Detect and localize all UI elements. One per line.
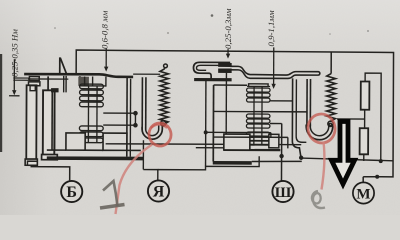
relay 2 lower contact bracket	[194, 78, 232, 81]
relay 2 frame	[214, 84, 247, 86]
relay 1 yoke left bar	[43, 90, 55, 155]
relay 1 contact support triangle	[59, 57, 61, 73]
relay 1 coil winding	[79, 84, 106, 143]
long wire through relay 2	[213, 110, 307, 112]
relay 1 foot blocks	[66, 133, 85, 150]
relay 1 armature bar	[24, 74, 133, 77]
case outline	[76, 50, 394, 177]
resistor R2	[360, 128, 369, 154]
relay 1 flexible U link	[142, 125, 162, 139]
relay 1 core pole	[78, 77, 89, 86]
svg-text:0,9-1,1мм: 0,9-1,1мм	[266, 10, 276, 47]
relay 2 foot line	[224, 149, 281, 151]
wiring weave	[206, 131, 271, 133]
dimension leader 0,25-0,35 Nm	[9, 59, 20, 96]
relay 2 coil taps	[270, 100, 292, 102]
relay 2 contact stack	[218, 63, 232, 67]
dimension leader 0,9-1,1 mm	[271, 47, 276, 89]
relay 2 spring top post	[330, 52, 332, 73]
red pencil line to mark 1	[116, 145, 153, 215]
terminal B	[61, 181, 82, 202]
relay 2 coil winding	[246, 86, 270, 145]
svg-text:0,25-0,35 Нм: 0,25-0,35 Нм	[10, 29, 20, 77]
relay 1 contact post cartridge	[26, 85, 36, 159]
relay 1 tension spring	[160, 68, 169, 125]
stationary plate under armature	[28, 78, 68, 80]
relay 1 coil taps	[103, 112, 135, 114]
wires from cartridge to terminal B	[31, 165, 70, 180]
dust speck	[211, 14, 214, 17]
red pencil line to mark 2	[322, 142, 325, 190]
wire from bracket down to node	[205, 80, 207, 166]
svg-text:М: М	[356, 186, 370, 202]
dimension leader 0,6-0,8 mm	[104, 49, 109, 72]
annotation arrow (thick outline)	[332, 122, 355, 185]
scan edge artifact left	[0, 54, 2, 152]
bottom bus right	[252, 160, 302, 163]
relay 2 coil top flange	[249, 84, 269, 87]
terminal Sh	[272, 181, 293, 202]
junction dot on frame bottom	[279, 154, 283, 158]
terminal Ya	[148, 180, 169, 201]
svg-text:0,25-0,3мм: 0,25-0,3мм	[223, 8, 233, 49]
svg-text:Ш: Ш	[275, 185, 292, 201]
relay 1 contact pair	[29, 77, 39, 81]
terminal riser M	[362, 177, 364, 183]
relay 2 armature strip	[230, 66, 320, 78]
relay 2 armature post	[306, 79, 308, 126]
terminal M	[353, 182, 374, 203]
svg-text:Я: Я	[153, 184, 165, 201]
middle bus wire	[106, 143, 302, 146]
relay 1 spring hanger link	[133, 73, 160, 75]
relay 2 frame bottom thick bar	[213, 161, 252, 165]
red pencil circle on relay 1 spring	[146, 121, 173, 149]
hanger post of yoke bar	[47, 76, 49, 91]
wire spring anchor to resistors	[337, 118, 365, 120]
wire from contact stack down	[225, 72, 227, 150]
relay 1 armature post	[141, 77, 143, 130]
wire pair to contact stack	[13, 77, 29, 79]
resistor chain wiring	[365, 73, 381, 161]
resistor R1	[361, 82, 370, 110]
relay 2 flexible U link	[306, 124, 333, 140]
relay 1 frame	[51, 88, 59, 92]
svg-text:Б: Б	[66, 184, 77, 201]
relay 1 spring top hook	[164, 64, 168, 68]
relay 2 foot blocks	[224, 134, 250, 150]
svg-text:0,6-0,8 мм: 0,6-0,8 мм	[100, 10, 110, 49]
red pencil circle on relay 2 spring	[306, 112, 338, 145]
dimension leader 0,25-0,3 mm	[226, 49, 230, 59]
relay 2 contact curl spring	[193, 62, 230, 79]
U link riser to bus	[142, 140, 144, 169]
relay 1 coil left hanger	[79, 76, 81, 86]
pencil mark 2	[312, 191, 325, 208]
relay 2 tension spring	[327, 74, 336, 122]
relay 1 moving contact strip	[63, 76, 65, 92]
terminal riser Ya	[143, 170, 158, 181]
terminal riser Sh	[280, 124, 282, 181]
pencil mark 1	[103, 181, 118, 206]
